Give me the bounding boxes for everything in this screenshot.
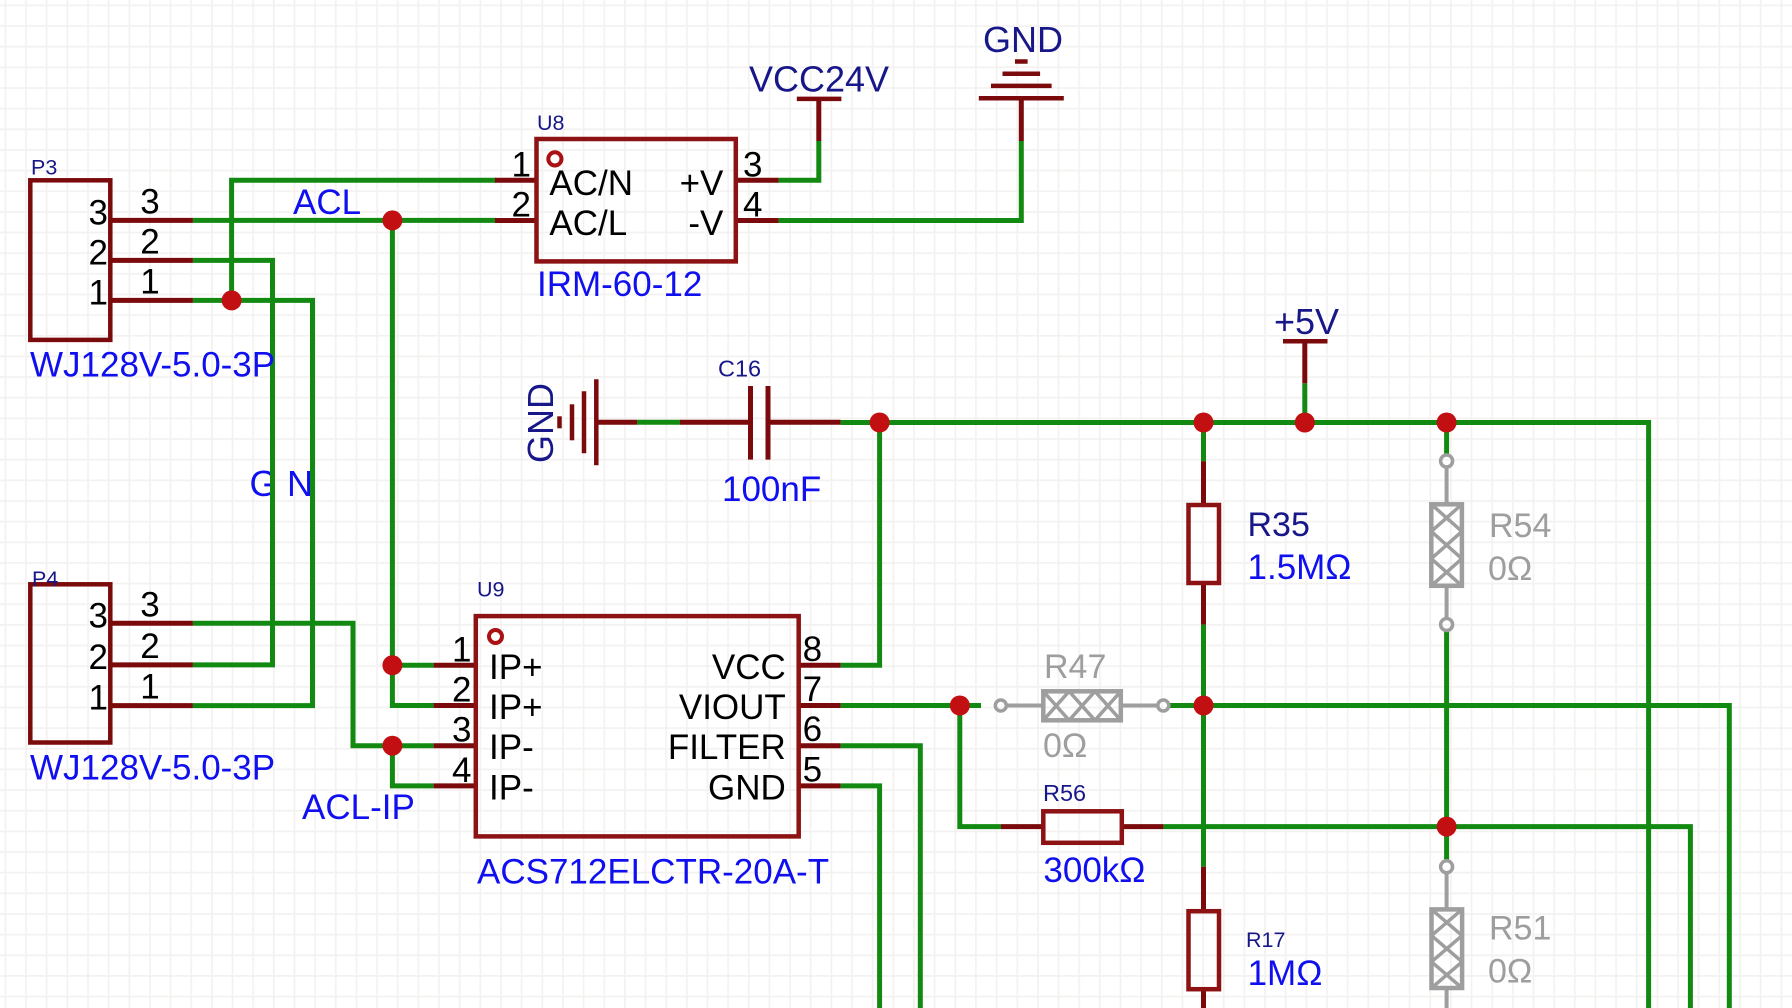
svg-text:R51: R51 bbox=[1489, 910, 1551, 948]
svg-text:IP+: IP+ bbox=[489, 648, 543, 687]
svg-text:0Ω: 0Ω bbox=[1488, 550, 1532, 588]
svg-text:2: 2 bbox=[140, 222, 159, 261]
svg-text:U9: U9 bbox=[477, 578, 504, 602]
svg-text:ACL-IP: ACL-IP bbox=[302, 788, 415, 827]
svg-text:R47: R47 bbox=[1044, 648, 1106, 686]
svg-text:3: 3 bbox=[140, 182, 159, 221]
svg-text:2: 2 bbox=[89, 638, 108, 677]
svg-text:P4: P4 bbox=[32, 567, 58, 591]
svg-text:AC/L: AC/L bbox=[549, 204, 627, 243]
svg-text:WJ128V-5.0-3P: WJ128V-5.0-3P bbox=[30, 346, 275, 385]
svg-text:R35: R35 bbox=[1248, 506, 1310, 544]
svg-text:ACS712ELCTR-20A-T: ACS712ELCTR-20A-T bbox=[477, 853, 829, 892]
svg-text:R54: R54 bbox=[1489, 507, 1551, 545]
svg-text:0Ω: 0Ω bbox=[1488, 953, 1532, 991]
svg-text:ACL: ACL bbox=[293, 183, 361, 222]
svg-text:U8: U8 bbox=[537, 111, 565, 135]
svg-text:R56: R56 bbox=[1043, 780, 1086, 806]
svg-text:+5V: +5V bbox=[1274, 301, 1339, 342]
svg-text:4: 4 bbox=[743, 186, 762, 225]
svg-text:FILTER: FILTER bbox=[668, 728, 786, 767]
svg-text:GND: GND bbox=[983, 19, 1063, 60]
svg-text:8: 8 bbox=[803, 630, 822, 669]
svg-text:0Ω: 0Ω bbox=[1043, 727, 1087, 765]
svg-text:3: 3 bbox=[743, 145, 762, 184]
svg-text:N: N bbox=[287, 463, 313, 504]
svg-text:7: 7 bbox=[803, 670, 822, 709]
svg-text:2: 2 bbox=[512, 186, 531, 225]
svg-text:GND: GND bbox=[708, 768, 786, 807]
svg-text:300kΩ: 300kΩ bbox=[1043, 851, 1145, 890]
svg-text:IP-: IP- bbox=[489, 768, 534, 807]
svg-text:1: 1 bbox=[452, 630, 471, 669]
svg-text:IRM-60-12: IRM-60-12 bbox=[537, 265, 702, 304]
svg-text:R17: R17 bbox=[1246, 928, 1285, 952]
svg-text:3: 3 bbox=[140, 585, 159, 624]
svg-text:5: 5 bbox=[803, 750, 822, 789]
svg-text:100nF: 100nF bbox=[722, 470, 821, 509]
svg-text:-V: -V bbox=[688, 204, 724, 243]
svg-text:2: 2 bbox=[452, 671, 471, 710]
svg-text:GND: GND bbox=[520, 383, 561, 463]
svg-text:AC/N: AC/N bbox=[549, 164, 633, 203]
svg-text:VCC24V: VCC24V bbox=[749, 58, 889, 99]
svg-text:IP+: IP+ bbox=[489, 688, 543, 727]
svg-text:1: 1 bbox=[140, 262, 159, 301]
svg-text:P3: P3 bbox=[31, 156, 57, 180]
svg-text:IP-: IP- bbox=[489, 728, 534, 767]
svg-text:1: 1 bbox=[140, 668, 159, 707]
svg-text:WJ128V-5.0-3P: WJ128V-5.0-3P bbox=[30, 749, 275, 788]
svg-text:VCC: VCC bbox=[712, 648, 786, 687]
svg-text:1MΩ: 1MΩ bbox=[1248, 954, 1323, 993]
svg-text:C16: C16 bbox=[718, 356, 761, 382]
svg-text:3: 3 bbox=[89, 596, 108, 635]
svg-text:1: 1 bbox=[512, 145, 531, 184]
svg-text:3: 3 bbox=[89, 193, 108, 232]
svg-text:3: 3 bbox=[452, 711, 471, 750]
svg-text:1.5MΩ: 1.5MΩ bbox=[1248, 548, 1352, 587]
svg-text:1: 1 bbox=[89, 273, 108, 312]
svg-text:2: 2 bbox=[140, 627, 159, 666]
svg-text:4: 4 bbox=[452, 751, 471, 790]
svg-text:6: 6 bbox=[803, 710, 822, 749]
svg-text:1: 1 bbox=[89, 679, 108, 718]
svg-text:+V: +V bbox=[680, 164, 724, 203]
svg-text:VIOUT: VIOUT bbox=[679, 688, 786, 727]
svg-text:2: 2 bbox=[89, 233, 108, 272]
